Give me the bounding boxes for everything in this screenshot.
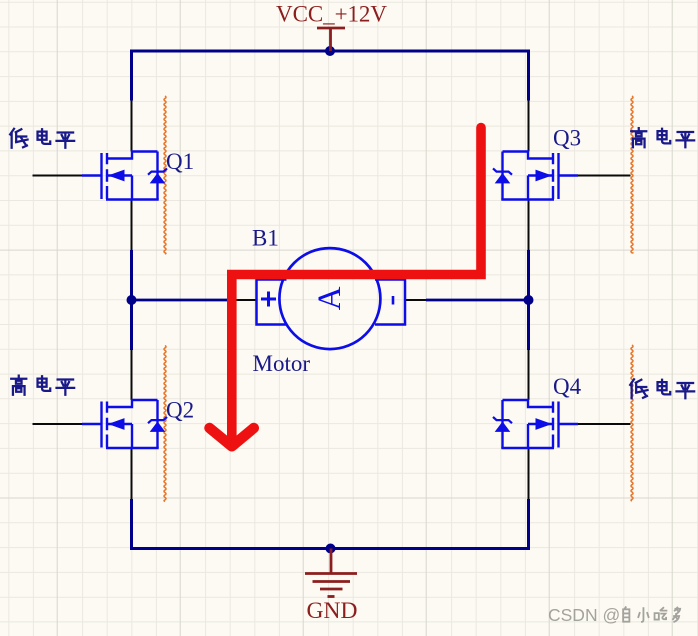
transistor Q2	[82, 400, 167, 448]
Q1 gate pin	[33, 175, 83, 177]
motor left terminal bracket	[257, 280, 287, 325]
Q4 gate pin	[578, 423, 631, 425]
svg-text:Q2: Q2	[166, 398, 194, 423]
svg-text:B1: B1	[252, 226, 279, 251]
power symbol VCC bar	[317, 28, 345, 51]
label high level top-right	[631, 128, 646, 147]
svg-text:A: A	[312, 286, 348, 310]
wire right mid vertical	[527, 250, 530, 350]
svg-text:Motor: Motor	[253, 351, 311, 376]
highlight zigzag left top	[164, 96, 166, 254]
svg-text:VCC_+12V: VCC_+12V	[276, 2, 387, 27]
Q1 source pin	[131, 200, 133, 251]
transistor Q1	[82, 152, 167, 200]
highlight zigzag left bottom	[164, 346, 166, 502]
Q4 source pin	[528, 448, 530, 499]
label low level bottom-right	[630, 379, 647, 398]
label low level top-left	[10, 129, 27, 148]
Q3 source pin	[528, 200, 530, 251]
wire left mid vertical	[130, 250, 133, 350]
motor plus mark	[261, 292, 276, 307]
node B junction dot	[524, 295, 534, 305]
svg-text:Q1: Q1	[166, 149, 194, 174]
motor right pin	[405, 299, 426, 301]
VCC junction dot	[325, 46, 335, 56]
wire motor to node B	[426, 299, 529, 302]
transistor Q3	[493, 152, 578, 200]
GND junction dot	[326, 544, 336, 554]
Q3 gate pin	[578, 175, 631, 177]
wire top rail VCC	[132, 51, 529, 101]
wire bottom rail GND	[132, 499, 529, 549]
motor left pin	[237, 299, 258, 301]
Q1 drain pin	[131, 101, 133, 152]
node A junction dot	[127, 295, 137, 305]
Q2 gate pin	[33, 423, 83, 425]
Q2 drain pin	[131, 349, 133, 400]
motor B1 body circle	[279, 248, 380, 349]
svg-text:GND: GND	[307, 598, 358, 624]
wire node A to motor	[132, 299, 237, 302]
ground symbol	[305, 549, 357, 597]
svg-text:Q3: Q3	[553, 126, 581, 151]
svg-text:CSDN @: CSDN @	[548, 605, 620, 625]
motor minus mark	[392, 296, 395, 305]
motor right terminal bracket	[375, 280, 405, 325]
transistor Q4	[493, 400, 578, 448]
Q4 drain pin	[528, 349, 530, 400]
label high level bottom-left	[11, 376, 26, 395]
Q2 source pin	[131, 448, 133, 499]
current flow arrow	[210, 128, 482, 447]
highlight zigzag right top	[631, 96, 633, 253]
svg-text:Q4: Q4	[553, 374, 582, 399]
watermark CJK	[623, 607, 629, 622]
Q3 drain pin	[528, 101, 530, 152]
highlight zigzag right bottom	[631, 345, 633, 501]
